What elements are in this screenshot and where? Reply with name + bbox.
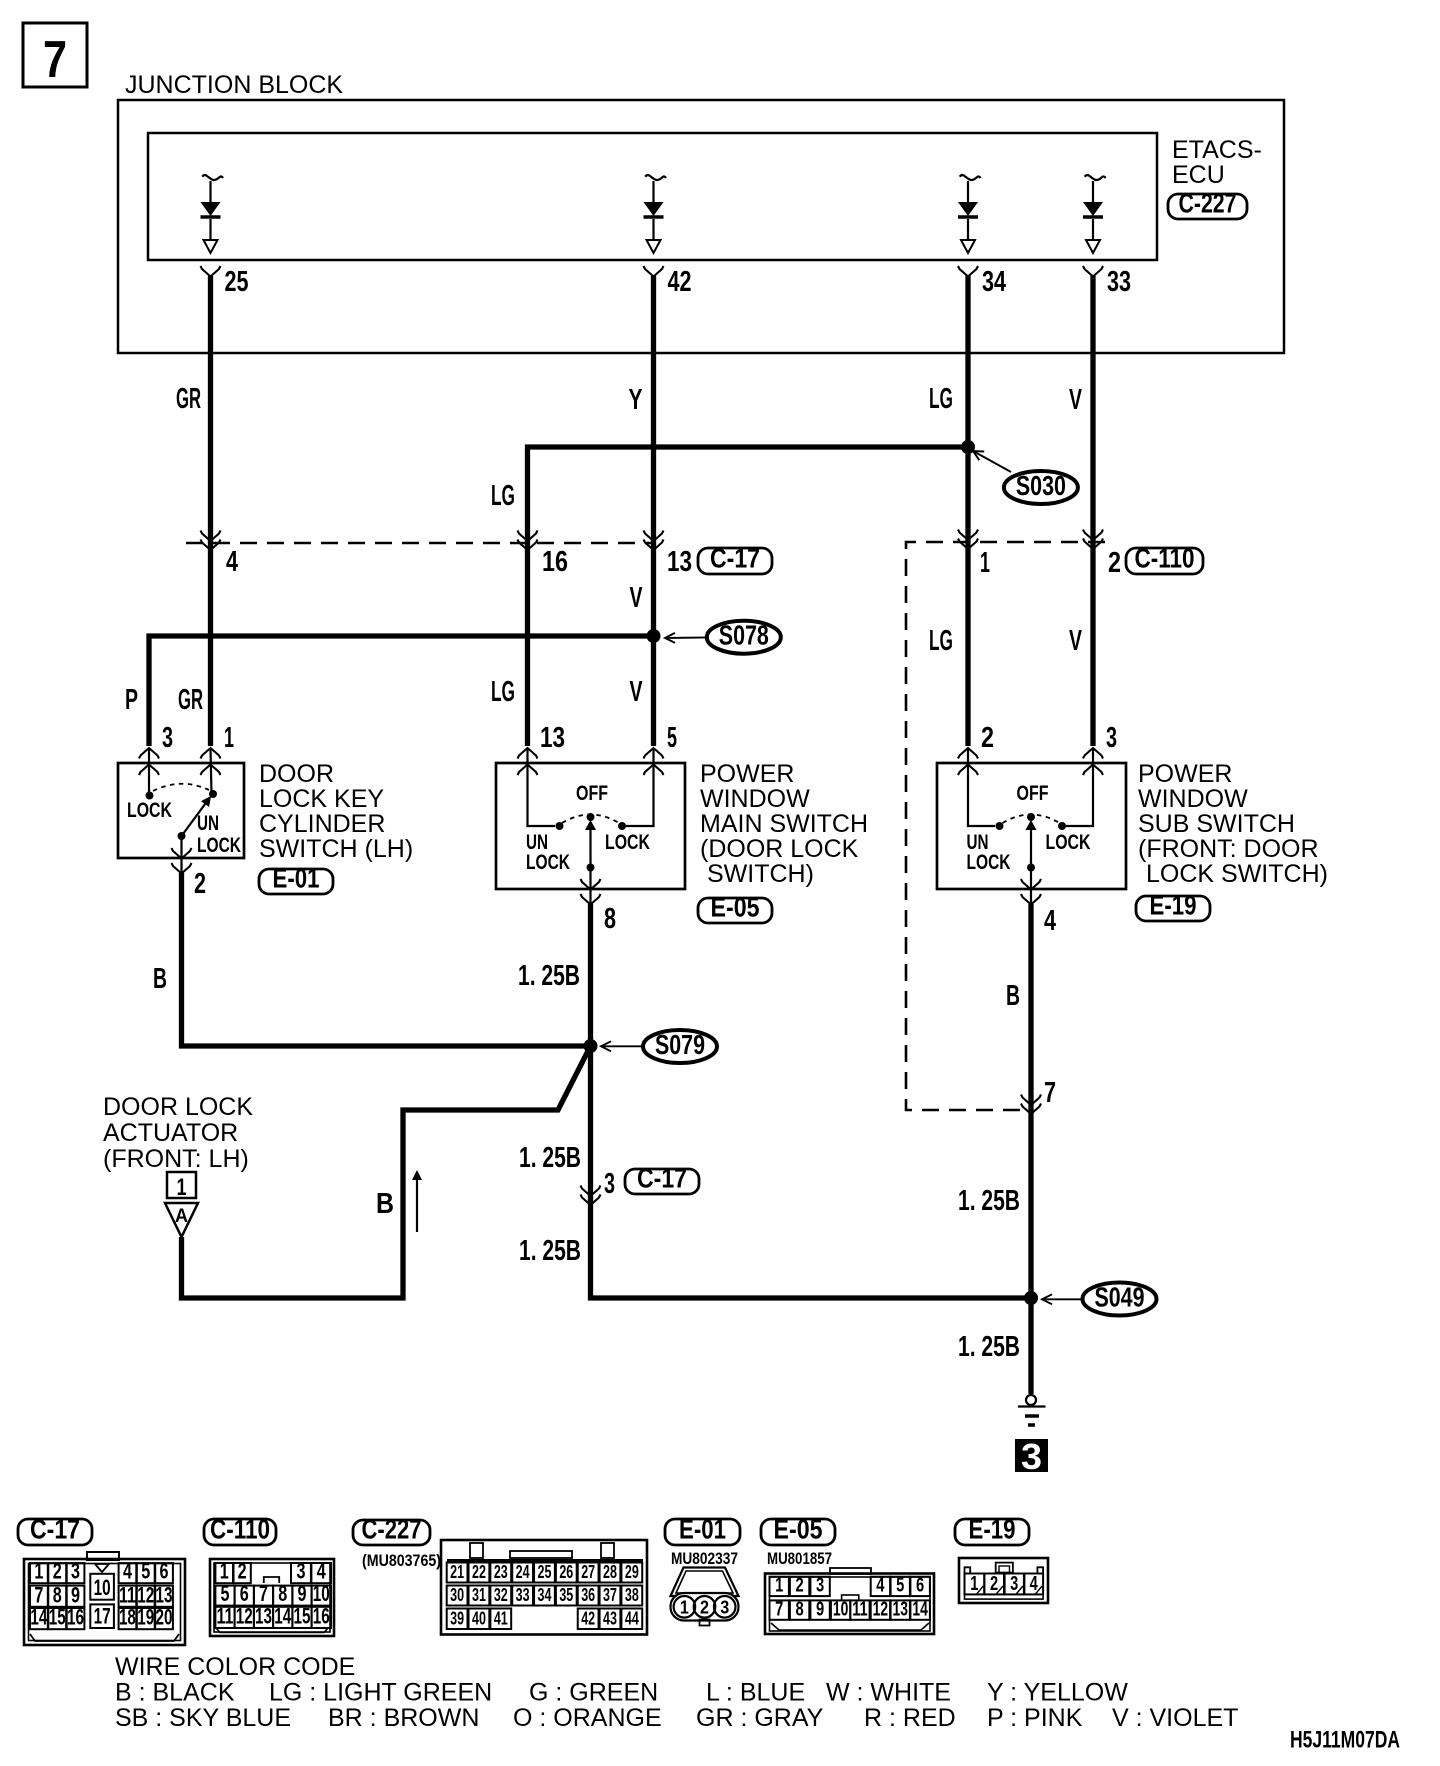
- E-05 pin 5 entry: [618, 722, 677, 830]
- label JUNCTION BLOCK: [125, 71, 343, 99]
- svg-text:7: 7: [43, 31, 67, 89]
- svg-text:1: 1: [224, 722, 234, 754]
- wire P (S078 to E-01 pin 3): [149, 636, 654, 746]
- connector label C-227 (pinout): [353, 1514, 430, 1546]
- svg-text:8: 8: [278, 1581, 287, 1606]
- svg-text:S079: S079: [655, 1029, 705, 1060]
- svg-text:C-110: C-110: [210, 1514, 270, 1545]
- svg-text:22: 22: [472, 1562, 486, 1582]
- svg-text:34: 34: [982, 266, 1006, 298]
- label DOOR LOCK ACTUATOR (FRONT: LH): [103, 1093, 253, 1173]
- connector C-110 dashed boundary: [906, 542, 1105, 1110]
- E-05 label UNLOCK: [526, 831, 570, 874]
- svg-text:1: 1: [34, 1559, 43, 1584]
- svg-text:(FRONT: LH): (FRONT: LH): [103, 1145, 249, 1173]
- svg-text:C-17: C-17: [637, 1163, 687, 1194]
- svg-text:POWER: POWER: [700, 760, 794, 788]
- svg-text:UN: UN: [197, 812, 219, 835]
- svg-text:Y: Y: [629, 384, 643, 416]
- ETACS-ECU box: [148, 133, 1157, 260]
- svg-text:1: 1: [970, 1573, 978, 1595]
- connector C-227 pinout body: [441, 1540, 647, 1635]
- svg-text:13: 13: [255, 1604, 272, 1629]
- svg-text:A: A: [175, 1206, 188, 1227]
- connector label C-110: [1126, 543, 1203, 575]
- ground symbol: [1018, 1395, 1046, 1425]
- connector label E-01 (pinout): [665, 1514, 740, 1546]
- connector label E-05 (schematic): [698, 892, 772, 924]
- wire GR (pin 25 to E-01 pin 1): [208, 276, 213, 746]
- svg-text:25: 25: [538, 1562, 552, 1582]
- svg-text:14: 14: [30, 1605, 48, 1630]
- label 1. 25B (below C-17): [519, 1235, 581, 1267]
- svg-text:13: 13: [156, 1582, 173, 1607]
- connector label C-110 (pinout): [204, 1514, 276, 1546]
- svg-text:WIRE COLOR CODE: WIRE COLOR CODE: [115, 1653, 355, 1681]
- E-01 pin 3 entry: [139, 722, 173, 795]
- svg-text:23: 23: [494, 1562, 508, 1582]
- E-19 dashed arc: [1003, 815, 1060, 824]
- label ETACS-ECU: [1172, 136, 1262, 189]
- svg-text:E-01: E-01: [273, 863, 320, 894]
- svg-text:SUB SWITCH: SUB SWITCH: [1138, 810, 1295, 838]
- svg-text:3: 3: [1010, 1573, 1018, 1595]
- ETACS-ECU pin 34: [958, 266, 1006, 298]
- svg-text:11: 11: [119, 1582, 136, 1607]
- svg-text:2: 2: [238, 1559, 247, 1584]
- svg-text:2: 2: [700, 1598, 709, 1618]
- svg-text:1. 25B: 1. 25B: [958, 1185, 1020, 1217]
- svg-text:GR : GRAY: GR : GRAY: [696, 1704, 824, 1732]
- svg-text:2: 2: [796, 1575, 804, 1597]
- svg-text:3: 3: [296, 1559, 305, 1584]
- connector C-17 crossing pin 4: [201, 531, 239, 579]
- E-05 label LOCK: [605, 831, 650, 854]
- svg-text:ETACS-: ETACS-: [1172, 136, 1262, 164]
- svg-text:11: 11: [217, 1604, 234, 1629]
- svg-text:12: 12: [236, 1604, 253, 1629]
- E-01 pin 1 entry: [201, 722, 235, 794]
- label GR (lower): [178, 684, 203, 716]
- svg-text:15: 15: [49, 1605, 66, 1630]
- connector C-110 crossing pin 1: [958, 530, 990, 580]
- svg-text:41: 41: [494, 1609, 508, 1629]
- svg-text:CYLINDER: CYLINDER: [259, 810, 385, 838]
- svg-text:P : PINK: P : PINK: [987, 1704, 1083, 1732]
- E-05 OFF contact: [576, 782, 608, 830]
- svg-text:13: 13: [893, 1598, 908, 1620]
- svg-text:H5J11M07DA: H5J11M07DA: [1290, 1727, 1400, 1754]
- label LG (lower left): [491, 676, 515, 708]
- label GR: [176, 383, 201, 415]
- label POWER WINDOW SUB SWITCH (FRONT: DOOR LOCK SWITCH): [1138, 760, 1328, 888]
- svg-text:1. 25B: 1. 25B: [519, 1142, 581, 1174]
- C-110 pinout row 1 (pins 1-4): [215, 1559, 331, 1584]
- svg-text:SB : SKY BLUE: SB : SKY BLUE: [115, 1704, 291, 1732]
- E-19 exit pin 4: [1021, 879, 1056, 937]
- wire color code line 2: [115, 1704, 1238, 1732]
- label B (E-19 wire): [1006, 980, 1020, 1012]
- page number box 7: [23, 23, 87, 89]
- svg-text:21: 21: [450, 1562, 464, 1582]
- E-01 dashed arc: [153, 784, 209, 791]
- svg-text:P: P: [125, 684, 138, 716]
- splice label S079: [601, 1029, 717, 1063]
- diode D1 (ETACS-ECU): [201, 175, 224, 253]
- svg-text:SWITCH): SWITCH): [707, 860, 814, 888]
- svg-text:3: 3: [604, 1168, 615, 1200]
- diode D4 (ETACS-ECU): [1083, 175, 1106, 253]
- svg-text:10: 10: [833, 1598, 848, 1620]
- svg-text:13: 13: [540, 722, 565, 754]
- svg-text:SWITCH (LH): SWITCH (LH): [259, 835, 413, 863]
- svg-text:V : VIOLET: V : VIOLET: [1112, 1704, 1238, 1732]
- wire 1.25B (S079 to S049): [591, 1046, 1032, 1298]
- svg-text:B: B: [153, 963, 167, 995]
- ETACS-ECU pin 33: [1083, 266, 1131, 298]
- E-19 pin 2 entry: [958, 722, 1004, 830]
- connector label C-17 (pinout): [18, 1514, 92, 1546]
- connector E-01 pinout body: [671, 1568, 739, 1626]
- svg-text:E-19: E-19: [969, 1514, 1016, 1545]
- label LG (branch): [491, 480, 515, 512]
- svg-text:9: 9: [298, 1581, 307, 1606]
- svg-text:W : WHITE: W : WHITE: [826, 1679, 951, 1707]
- svg-text:(FRONT: DOOR: (FRONT: DOOR: [1138, 835, 1319, 863]
- svg-text:5: 5: [221, 1581, 230, 1606]
- svg-text:13: 13: [667, 546, 692, 578]
- svg-text:ACTUATOR: ACTUATOR: [103, 1119, 238, 1147]
- svg-text:S049: S049: [1095, 1282, 1145, 1313]
- svg-text:30: 30: [450, 1585, 464, 1605]
- E-05 common arm: [587, 830, 595, 904]
- svg-text:14: 14: [912, 1598, 928, 1620]
- svg-text:L : BLUE: L : BLUE: [706, 1679, 805, 1707]
- E-19 OFF contact: [1017, 782, 1049, 830]
- E-19 common arm: [1027, 830, 1035, 904]
- E-05 pinout row 2 (pins 7-14): [770, 1598, 930, 1620]
- svg-text:4: 4: [1044, 905, 1056, 937]
- svg-text:4: 4: [876, 1575, 885, 1597]
- wire 1.25B (S049 to ground): [1028, 1298, 1033, 1394]
- svg-text:12: 12: [137, 1582, 154, 1607]
- svg-text:4: 4: [226, 546, 238, 578]
- svg-text:38: 38: [625, 1585, 639, 1605]
- svg-text:3: 3: [720, 1598, 729, 1618]
- svg-text:2: 2: [990, 1573, 998, 1595]
- svg-text:11: 11: [852, 1598, 867, 1620]
- label 1. 25B (right upper): [958, 1185, 1020, 1217]
- connector C-17 crossing pin 16: [518, 531, 569, 579]
- svg-text:1: 1: [220, 1559, 229, 1584]
- svg-text:24: 24: [516, 1562, 530, 1582]
- svg-text:3: 3: [816, 1575, 824, 1597]
- C-110 pinout row 2 (pins 5-10): [215, 1581, 331, 1606]
- svg-text:POWER: POWER: [1138, 760, 1232, 788]
- svg-text:8: 8: [53, 1582, 62, 1607]
- E-19 pin 3 entry: [1058, 722, 1117, 830]
- E-01 switch arm: [178, 796, 212, 840]
- svg-text:6: 6: [240, 1581, 249, 1606]
- svg-text:BR : BROWN: BR : BROWN: [328, 1704, 479, 1732]
- svg-text:19: 19: [137, 1605, 154, 1630]
- connector C-17 pinout body: [24, 1552, 185, 1645]
- svg-text:WINDOW: WINDOW: [700, 785, 810, 813]
- svg-text:35: 35: [559, 1585, 573, 1605]
- svg-text:(DOOR LOCK: (DOOR LOCK: [700, 835, 859, 863]
- svg-text:3: 3: [71, 1559, 80, 1584]
- E-01 common exit pin 2: [172, 836, 207, 900]
- connector label E-01 (schematic): [259, 863, 333, 895]
- svg-text:43: 43: [603, 1609, 617, 1629]
- svg-text:34: 34: [538, 1585, 552, 1605]
- svg-text:12: 12: [873, 1598, 888, 1620]
- svg-text:3: 3: [1021, 1436, 1042, 1477]
- svg-text:2: 2: [1108, 547, 1121, 579]
- svg-text:Y : YELLOW: Y : YELLOW: [987, 1679, 1128, 1707]
- label POWER WINDOW MAIN SWITCH (DOOR LOCK SWITCH): [700, 760, 868, 888]
- svg-text:V: V: [1069, 384, 1082, 416]
- svg-text:39: 39: [450, 1609, 464, 1629]
- svg-text:DOOR: DOOR: [259, 760, 334, 788]
- connector label E-19 (pinout): [955, 1514, 1029, 1546]
- E-01 UNLOCK contact: [197, 790, 241, 857]
- wire LG (pin 34 to E-19 pin 2): [965, 276, 970, 746]
- svg-text:LOCK: LOCK: [605, 831, 650, 854]
- label LG (pin 34): [929, 383, 953, 415]
- svg-text:32: 32: [494, 1585, 508, 1605]
- svg-text:10: 10: [94, 1575, 111, 1600]
- ETACS-ECU pin 25: [201, 266, 249, 298]
- svg-text:E-05: E-05: [774, 1514, 823, 1545]
- svg-text:7: 7: [34, 1582, 43, 1607]
- svg-text:1. 25B: 1. 25B: [518, 960, 580, 992]
- svg-text:B : BLACK: B : BLACK: [115, 1679, 235, 1707]
- svg-text:6: 6: [916, 1575, 924, 1597]
- label B (E-01 wire): [153, 963, 167, 995]
- connector C-17 dashed line: [186, 542, 655, 545]
- connector label E-05 (pinout): [761, 1514, 835, 1546]
- svg-text:8: 8: [604, 903, 616, 935]
- svg-text:LOCK: LOCK: [967, 851, 1011, 874]
- svg-text:6: 6: [160, 1559, 169, 1584]
- wire B (S079 to door lock actuator): [182, 1046, 591, 1298]
- label V (below pin 13): [630, 582, 643, 614]
- svg-text:OFF: OFF: [576, 782, 608, 805]
- svg-text:1: 1: [177, 1174, 187, 1201]
- svg-text:B: B: [376, 1188, 394, 1220]
- wire color code line 1: [115, 1679, 1128, 1707]
- connector C-17 crossing pin 3: [581, 1168, 616, 1205]
- C-110 pinout row 3 (pins 11-16): [215, 1604, 331, 1629]
- svg-text:17: 17: [94, 1604, 111, 1629]
- svg-text:LG : LIGHT GREEN: LG : LIGHT GREEN: [269, 1679, 492, 1707]
- svg-text:33: 33: [516, 1585, 530, 1605]
- ETACS-ECU pin 42: [644, 266, 692, 298]
- svg-text:29: 29: [625, 1562, 639, 1582]
- label 1. 25B (right lower): [958, 1331, 1020, 1363]
- svg-text:E-01: E-01: [679, 1514, 726, 1545]
- C-227 pinout row 2 (pins 30-38): [447, 1585, 643, 1606]
- svg-text:16: 16: [313, 1604, 330, 1629]
- wire Y/V (pin 42 to E-05 pin 5): [651, 276, 656, 746]
- door lock actuator terminal 1: [165, 1172, 198, 1237]
- svg-text:LOCK: LOCK: [526, 851, 570, 874]
- svg-text:26: 26: [559, 1562, 573, 1582]
- label V (pin 33): [1069, 384, 1082, 416]
- svg-text:25: 25: [225, 266, 249, 298]
- label V (lower left): [630, 676, 643, 708]
- svg-text:1. 25B: 1. 25B: [958, 1331, 1020, 1363]
- svg-text:20: 20: [156, 1605, 173, 1630]
- E-05 exit pin 8: [581, 879, 617, 935]
- svg-text:LG: LG: [929, 383, 953, 415]
- label P: [125, 684, 138, 716]
- junction block box: [118, 100, 1284, 353]
- svg-text:16: 16: [542, 546, 568, 578]
- svg-text:2: 2: [194, 868, 206, 900]
- wire 1.25B (E-05 pin 8 to S079): [588, 904, 593, 1046]
- svg-text:MU801857: MU801857: [767, 1549, 832, 1568]
- svg-text:MAIN SWITCH: MAIN SWITCH: [700, 810, 868, 838]
- switch E-19 box: [937, 763, 1126, 889]
- diode D2 (ETACS-ECU): [644, 175, 667, 253]
- connector crossing pin 7: [1021, 1077, 1056, 1114]
- connector C-110 pinout body: [210, 1559, 334, 1636]
- svg-text:G : GREEN: G : GREEN: [529, 1679, 658, 1707]
- C-17 pinout row 1 (pins 1-6): [30, 1559, 173, 1584]
- svg-text:1: 1: [980, 547, 990, 579]
- svg-text:7: 7: [259, 1581, 268, 1606]
- svg-text:14: 14: [274, 1604, 292, 1629]
- svg-text:4: 4: [317, 1559, 327, 1584]
- svg-text:LG: LG: [929, 625, 953, 657]
- wire B (E-01 pin 2 to S079): [182, 873, 589, 1046]
- svg-text:LOCK: LOCK: [127, 799, 172, 822]
- svg-text:LOCK SWITCH): LOCK SWITCH): [1146, 860, 1328, 888]
- svg-text:C-227: C-227: [362, 1514, 422, 1545]
- node S049 junction: [1024, 1291, 1038, 1305]
- svg-text:16: 16: [67, 1605, 84, 1630]
- svg-text:31: 31: [472, 1585, 486, 1605]
- node S078 junction: [647, 629, 661, 643]
- svg-text:7: 7: [775, 1598, 783, 1620]
- connector C-17 crossing pin 13: [644, 531, 693, 579]
- svg-text:LG: LG: [491, 480, 515, 512]
- diode D3 (ETACS-ECU): [958, 175, 981, 253]
- svg-text:V: V: [630, 582, 643, 614]
- svg-text:36: 36: [581, 1585, 595, 1605]
- svg-text:9: 9: [816, 1598, 824, 1620]
- E-19 label LOCK: [1046, 831, 1091, 854]
- wire V (pin 33 to E-19 pin 3): [1090, 276, 1095, 746]
- svg-text:V: V: [630, 676, 643, 708]
- label B (actuator wire): [376, 1188, 394, 1220]
- connector C-110 crossing pin 2: [1083, 530, 1121, 580]
- svg-text:C-17: C-17: [710, 543, 760, 574]
- svg-text:18: 18: [119, 1605, 136, 1630]
- svg-text:C-17: C-17: [30, 1514, 80, 1545]
- switch E-05 box: [496, 763, 685, 889]
- svg-text:JUNCTION BLOCK: JUNCTION BLOCK: [125, 71, 343, 99]
- connector label C-227: [1168, 188, 1247, 220]
- connector E-05 pinout body: [765, 1568, 934, 1634]
- svg-text:1. 25B: 1. 25B: [519, 1235, 581, 1267]
- svg-text:4: 4: [123, 1559, 133, 1584]
- C-227 pinout row 1 (pins 21-29): [447, 1562, 643, 1583]
- svg-text:DOOR LOCK: DOOR LOCK: [103, 1093, 253, 1121]
- splice label S030: [973, 451, 1078, 504]
- svg-text:OFF: OFF: [1017, 782, 1049, 805]
- svg-text:5: 5: [667, 722, 677, 754]
- connector label E-19 (schematic): [1136, 890, 1210, 922]
- svg-text:GR: GR: [176, 383, 201, 415]
- svg-text:42: 42: [668, 266, 692, 298]
- connector label C-17 (upper): [698, 543, 772, 575]
- C-17 pinout row 2 (pins 7-13): [30, 1582, 173, 1607]
- svg-text:9: 9: [71, 1582, 80, 1607]
- svg-text:MU802337: MU802337: [671, 1549, 738, 1568]
- svg-text:ECU: ECU: [1172, 161, 1225, 189]
- svg-text:10: 10: [313, 1581, 330, 1606]
- label WIRE COLOR CODE: [115, 1653, 355, 1681]
- svg-text:5: 5: [896, 1575, 904, 1597]
- switch E-01 box: [118, 763, 244, 858]
- label 1. 25B (above C-17): [519, 1142, 581, 1174]
- svg-text:1: 1: [775, 1575, 783, 1597]
- svg-text:GR: GR: [178, 684, 203, 716]
- svg-text:R : RED: R : RED: [864, 1704, 956, 1732]
- direction arrow: [412, 1170, 422, 1232]
- svg-text:O : ORANGE: O : ORANGE: [513, 1704, 662, 1732]
- connector E-19 pinout body: [959, 1558, 1048, 1603]
- svg-text:28: 28: [603, 1562, 617, 1582]
- wire LG branch (S030 to E-05 pin 13): [528, 447, 969, 746]
- svg-text:27: 27: [581, 1562, 595, 1582]
- node S079 junction: [584, 1039, 598, 1053]
- wire B (E-19 pin 4 to S049): [1028, 904, 1033, 1298]
- svg-text:7: 7: [1044, 1077, 1056, 1109]
- connector label C-17 (pin 3): [625, 1163, 699, 1195]
- label V (right mid): [1069, 625, 1082, 657]
- svg-text:C-110: C-110: [1135, 543, 1195, 574]
- svg-text:E-19: E-19: [1150, 890, 1197, 921]
- svg-text:33: 33: [1107, 266, 1131, 298]
- svg-text:5: 5: [141, 1559, 150, 1584]
- ground reference 3: [1015, 1436, 1048, 1477]
- svg-text:WINDOW: WINDOW: [1138, 785, 1248, 813]
- svg-text:42: 42: [581, 1609, 595, 1629]
- label MU801857: [767, 1549, 832, 1568]
- E-01 LOCK contact: [127, 792, 172, 823]
- svg-text:LOCK: LOCK: [1046, 831, 1091, 854]
- label MU803765: [362, 1551, 441, 1570]
- svg-text:B: B: [1006, 980, 1020, 1012]
- splice label S078: [665, 620, 781, 654]
- svg-text:44: 44: [625, 1609, 639, 1629]
- splice label S049: [1042, 1282, 1157, 1316]
- svg-text:S078: S078: [719, 620, 769, 651]
- svg-text:15: 15: [294, 1604, 311, 1629]
- svg-text:V: V: [1069, 625, 1082, 657]
- E-19 label UNLOCK: [967, 831, 1011, 874]
- svg-text:3: 3: [1106, 722, 1117, 754]
- E-05 pin 13 entry: [518, 722, 566, 830]
- svg-text:1: 1: [680, 1598, 689, 1618]
- label DOOR LOCK KEY CYLINDER SWITCH (LH): [259, 760, 413, 863]
- svg-text:3: 3: [162, 722, 173, 754]
- svg-text:LOCK KEY: LOCK KEY: [259, 785, 384, 813]
